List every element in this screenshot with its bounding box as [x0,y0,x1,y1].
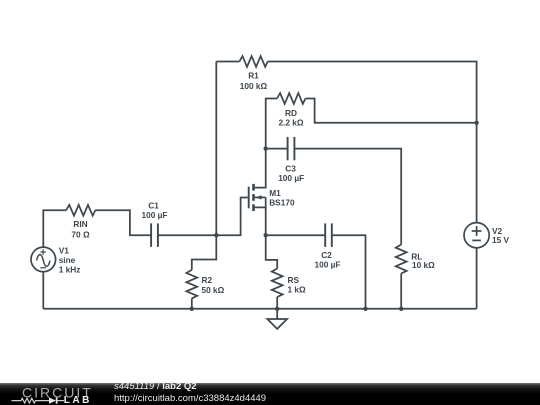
wire: C2 right plate down to ground rail [332,235,366,309]
svg-text:100 µF: 100 µF [278,173,304,183]
wire: V1 bottom to ground rail [42,272,44,309]
wire: V1 top to RIN left [43,210,66,247]
wire: gate bias vertical R1 left down to gate node [215,62,217,236]
svg-text:V1: V1 [59,246,70,256]
wire: bottom rail up to V2 minus [476,248,478,309]
resistor R1 100 k [239,56,267,91]
svg-text:100 kΩ: 100 kΩ [240,81,268,91]
resistor R2 50 k [186,270,224,299]
wire: gate node jog down to R2 top [192,235,217,270]
svg-text:R2: R2 [202,275,213,285]
wire: RD right branch to supply rail [305,99,476,123]
resistor RS 1 k [272,269,306,298]
node: drain / C3 junction [264,146,268,150]
svg-text:1 kΩ: 1 kΩ [288,284,307,294]
svg-text:50 kΩ: 50 kΩ [202,285,225,295]
node: supply rail / RD junction [474,121,478,125]
wire: MOSFET drain lead up to drain node [254,149,266,188]
source V1 sine 1 kHz [31,246,80,275]
wire: R2 bottom lead to ground rail [191,298,193,308]
node: gate bias junction C1/R1/R2 [214,233,218,237]
svg-text:2.2 kΩ: 2.2 kΩ [278,118,303,128]
wire: source node jog down to RS top [266,235,278,268]
node: RS / ground junction [275,307,279,311]
resistor RD 2.2 k [277,93,305,127]
svg-text:LAB: LAB [64,395,92,404]
node: C2 / ground rail junction [363,307,367,311]
wire: drain node up to RD left [266,99,277,149]
svg-text:C1: C1 [148,201,159,211]
wire: gate node to MOSFET gate [216,198,248,236]
wire: drain node to C3 left plate [266,148,288,150]
node: source junction [264,233,268,237]
svg-text:100 µF: 100 µF [315,259,341,269]
source V2 15 V [464,223,510,248]
wire: RL bottom lead to ground rail [400,274,402,309]
svg-text:100 µF: 100 µF [142,210,168,220]
wire: source node right to C2 left plate [266,234,326,236]
svg-text:sine: sine [59,255,76,265]
wire: MOSFET source lead down to source node [254,207,266,235]
transistor M1 BS170 NMOS [249,184,295,211]
ground symbol [267,309,287,329]
resistor RIN 70 ohm [66,205,95,239]
svg-text:RIN: RIN [73,219,87,229]
wire: top rail from R1 left corner [216,61,239,63]
resistor RL 10 k [396,245,435,274]
svg-text:15 V: 15 V [492,235,510,245]
svg-text:10 kΩ: 10 kΩ [412,260,435,270]
svg-text:RD: RD [285,108,297,118]
node: R2 / ground rail junction [190,307,194,311]
capacitor C1 100 uF [142,201,168,247]
capacitor C3 100 uF [278,137,304,183]
wire: bottom ground rail [43,308,476,310]
wire: RIN right down to C1 left plate [95,210,151,235]
wire: R1 right to top-right corner down to V2 plus [268,62,477,223]
svg-text:R1: R1 [248,71,259,81]
svg-text:BS170: BS170 [269,197,295,207]
wire: C3 right plate to RL top [294,149,401,245]
wire: RS bottom lead to ground rail [276,297,278,309]
svg-text:1 kHz: 1 kHz [59,265,81,275]
svg-text:70 Ω: 70 Ω [71,229,90,239]
capacitor C2 100 uF [315,223,341,269]
wire: C1 right plate to gate node [158,234,216,236]
node: RL / ground rail junction [399,307,403,311]
